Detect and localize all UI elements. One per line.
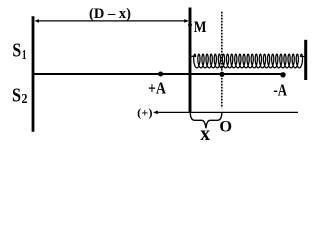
dot on wall M <box>188 23 192 27</box>
positive direction axis <box>155 111 299 113</box>
node +A dot <box>158 72 163 77</box>
svg-text:2: 2 <box>22 91 28 106</box>
dimension arrowhead right <box>184 19 189 23</box>
svg-text:-A: -A <box>274 80 288 99</box>
svg-text:S: S <box>12 40 21 62</box>
dimension line (D - x) <box>36 20 187 22</box>
wall right <box>304 40 307 80</box>
svg-text:O: O <box>219 116 232 135</box>
svg-text:x: x <box>200 124 210 143</box>
node -A dot <box>280 72 285 77</box>
spring <box>191 54 304 68</box>
brace x <box>190 113 222 129</box>
axis arrowhead <box>153 111 158 115</box>
svg-text:(+): (+) <box>137 105 152 119</box>
svg-text:1: 1 <box>22 47 27 62</box>
svg-text:(D – x): (D – x) <box>89 6 131 22</box>
main axis line <box>33 73 285 75</box>
dotted equilibrium line <box>221 12 223 108</box>
dimension arrowhead left <box>34 19 39 23</box>
svg-text:M: M <box>194 19 207 36</box>
svg-text:+A: +A <box>148 78 167 97</box>
node O dot <box>219 72 224 77</box>
wall S (left vertical line) <box>32 16 35 132</box>
svg-text:S: S <box>12 85 21 107</box>
wall M (vertical line) <box>189 8 192 113</box>
